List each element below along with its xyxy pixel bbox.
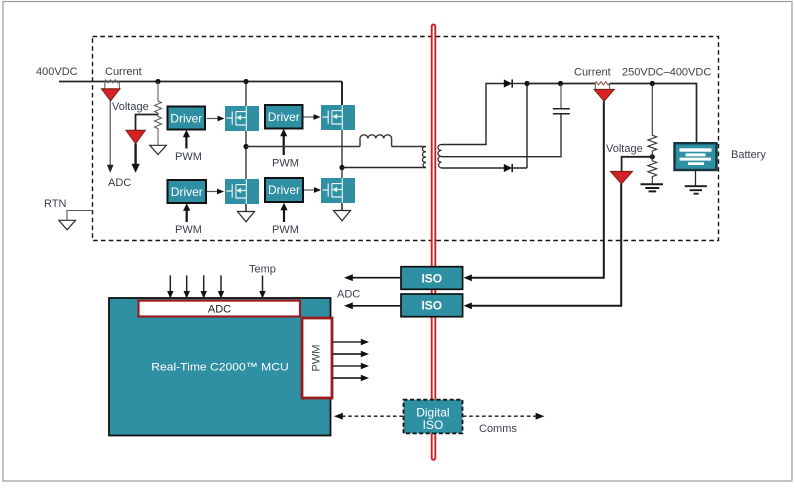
digital isolator ISO2 <box>401 294 463 317</box>
MOSFET Q3 <box>225 179 259 204</box>
wire ADC input arrow 3 <box>203 275 205 291</box>
wire secondary top tap to diode D1 <box>442 84 505 145</box>
svg-text:ISO: ISO <box>421 299 442 313</box>
wire driver U4 to Q4 gate <box>304 189 315 191</box>
wire leg A midpoint to inductor <box>246 146 360 148</box>
digital isolator Digital ISO <box>404 400 463 434</box>
power stage boundary (dashed box) <box>93 37 719 241</box>
wire PWM to U3 <box>186 210 188 222</box>
voltage sense amp output (red triangle) <box>611 171 633 183</box>
isolation barrier <box>432 25 436 460</box>
svg-text:250VDC–400VDC: 250VDC–400VDC <box>622 67 711 79</box>
wire current sense to ADC <box>109 101 111 166</box>
wire bridge leg A <box>245 82 247 212</box>
wire PWM output arrow 4 <box>333 377 362 379</box>
node output divider <box>650 81 655 86</box>
wire inductor to transformer primary <box>392 146 427 148</box>
ground (Q3 source) <box>245 204 247 212</box>
wire transformer primary bottom to leg B <box>342 167 426 169</box>
wire D2 up to output rail node <box>512 84 527 169</box>
resistor divider top R <box>155 82 162 115</box>
node output cap <box>558 81 563 86</box>
wire driver U3 to Q3 gate <box>207 191 218 193</box>
wire comms to MCU (dashed) <box>342 415 403 417</box>
node rectifier output <box>524 81 529 86</box>
svg-text:Real-Time C2000™ MCU: Real-Time C2000™ MCU <box>151 362 289 374</box>
MCU PWM block <box>302 318 332 398</box>
battery B1 <box>675 143 717 170</box>
svg-text:ADC: ADC <box>108 177 131 189</box>
svg-text:PWM: PWM <box>175 151 202 163</box>
svg-text:ISO: ISO <box>421 271 442 285</box>
node output divider tap <box>650 154 655 159</box>
wire RTN <box>67 211 93 221</box>
resistor divider bottom R <box>155 115 162 146</box>
svg-text:Current: Current <box>105 66 142 78</box>
wire ADC input arrow 4 <box>220 275 222 291</box>
MOSFET Q2 <box>321 105 355 130</box>
svg-text:ADC: ADC <box>208 304 231 316</box>
output divider bottom R <box>648 152 657 185</box>
wire output rail right <box>610 84 697 144</box>
svg-text:PWM: PWM <box>272 224 299 236</box>
svg-text:Comms: Comms <box>479 423 517 435</box>
wire battery to ground <box>695 170 697 186</box>
wire rail to cap <box>560 84 562 109</box>
svg-text:Driver: Driver <box>170 111 202 125</box>
node leg B midpoint <box>339 165 344 170</box>
transformer T1 primary winding <box>422 147 426 168</box>
ground (RTN) <box>59 220 76 230</box>
svg-text:Driver: Driver <box>268 183 300 197</box>
wire PWM to U1 <box>185 137 187 149</box>
ground (divider) <box>150 145 167 154</box>
digital isolator ISO1 <box>401 267 463 290</box>
wire ISO1 to ADC <box>352 277 401 279</box>
wire output voltage sense to ISO2 <box>471 184 621 306</box>
MCU ADC block <box>139 301 301 317</box>
gate driver U4 <box>265 178 303 202</box>
wire comms out (dashed) <box>463 415 536 417</box>
MOSFET Q1 <box>225 106 259 131</box>
svg-text:Temp: Temp <box>249 264 276 276</box>
svg-text:ADC: ADC <box>337 289 360 301</box>
wire sense taps (output) <box>595 84 609 90</box>
wire Temp to ADC <box>262 276 264 292</box>
svg-text:400VDC: 400VDC <box>36 66 78 78</box>
MCU block <box>109 298 331 436</box>
wire PWM to U4 <box>283 210 285 223</box>
current sense amp (red triangle) <box>102 89 120 101</box>
shunt resistor input current sense <box>105 80 120 83</box>
gate driver U2 <box>265 105 303 129</box>
wire PWM output arrow 1 <box>333 341 362 343</box>
ground (output divider, earth) <box>641 184 664 191</box>
voltage sense amp (red triangle) <box>126 130 145 143</box>
gate driver U3 <box>168 180 207 203</box>
wire D1 to output rail node <box>512 83 527 85</box>
wire divider tap to voltage amp <box>136 115 159 131</box>
gate driver U1 <box>168 107 206 130</box>
wire 400VDC input rail <box>59 81 342 83</box>
wire output current sense to ISO1 <box>471 101 604 278</box>
wire cap to center tap return <box>442 114 562 157</box>
wire ADC input arrow 2 <box>186 275 188 291</box>
node leg A midpoint <box>243 144 248 149</box>
svg-text:Battery: Battery <box>731 149 766 161</box>
wire ISO2 to ADC <box>352 305 401 307</box>
wire secondary bottom tap to diode D2 <box>442 167 505 169</box>
capacitor C1 <box>553 109 570 114</box>
svg-text:RTN: RTN <box>44 198 66 210</box>
wire divider tap to voltage amp (output) <box>622 157 653 172</box>
wire PWM output arrow 2 <box>333 353 362 355</box>
svg-text:Voltage: Voltage <box>112 101 149 113</box>
inductor L1 <box>360 135 392 147</box>
transformer T1 secondary winding <box>438 145 442 168</box>
wire output rail <box>527 83 595 85</box>
svg-text:Current: Current <box>574 67 611 79</box>
ground (battery, earth) <box>685 186 707 194</box>
node rail / leg A <box>243 79 248 84</box>
wire PWM output arrow 3 <box>333 365 362 367</box>
shunt resistor output current sense <box>595 82 610 85</box>
svg-text:ISO: ISO <box>423 418 444 432</box>
svg-text:PWM: PWM <box>175 224 202 236</box>
wire sense taps <box>105 82 120 89</box>
MOSFET Q4 <box>321 178 355 203</box>
node input rail / divider <box>155 79 160 84</box>
diode D2 <box>504 164 512 172</box>
wire bridge leg B <box>341 82 343 106</box>
wire ADC input arrow 1 <box>169 275 171 291</box>
svg-text:PWM: PWM <box>272 158 299 170</box>
svg-text:Voltage: Voltage <box>606 143 643 155</box>
wire voltage sense to ADC <box>134 144 136 165</box>
svg-text:PWM: PWM <box>310 345 322 372</box>
wire driver U2 to Q2 gate <box>304 116 315 118</box>
current sense amp output (red triangle) <box>594 89 614 101</box>
svg-text:Driver: Driver <box>171 185 203 199</box>
wire driver U1 to Q1 gate <box>207 118 219 120</box>
diode D1 <box>504 79 512 87</box>
ground (Q4 source) <box>341 203 343 211</box>
svg-text:Driver: Driver <box>268 110 300 124</box>
output divider top R <box>648 84 657 152</box>
wire PWM to U2 <box>283 136 285 156</box>
